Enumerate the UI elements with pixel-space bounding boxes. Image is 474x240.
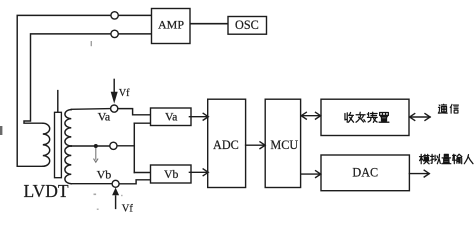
svg-text:LVDT: LVDT — [24, 181, 69, 201]
svg-text:MCU: MCU — [270, 138, 298, 152]
svg-text:AMP: AMP — [158, 18, 184, 32]
svg-text:OSC: OSC — [235, 18, 259, 32]
svg-text:Va: Va — [165, 110, 178, 124]
svg-text:ADC: ADC — [213, 138, 239, 152]
svg-text:Vf: Vf — [122, 204, 134, 214]
svg-text:Va: Va — [98, 109, 111, 123]
svg-text:Vf: Vf — [119, 88, 130, 99]
svg-text:Vb: Vb — [97, 168, 112, 182]
svg-text:Vb: Vb — [164, 167, 179, 181]
svg-text:DAC: DAC — [352, 166, 378, 180]
